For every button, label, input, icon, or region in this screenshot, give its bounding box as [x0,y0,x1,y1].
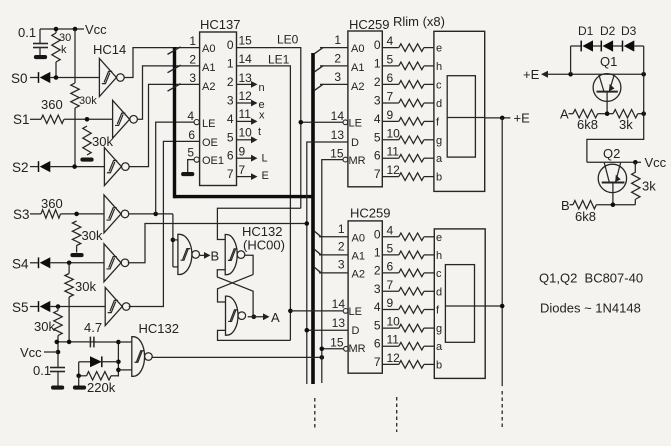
svg-text:10: 10 [387,315,401,329]
continuation dashed stub +E [501,391,503,429]
input S0 label [11,71,28,86]
wire A node [598,111,613,116]
svg-text:g: g [436,323,442,335]
svg-text:+E: +E [523,67,540,82]
resistor 30k pull-up S2 [71,83,97,167]
svg-text:A1: A1 [202,62,215,74]
svg-text:5: 5 [374,130,381,144]
svg-text:A0: A0 [352,233,365,245]
continuation dashed stub mid [396,397,398,432]
wire HC137 output 5 t arrow [237,136,258,143]
diode POR discharge [79,356,119,367]
svg-text:A: A [271,310,280,325]
svg-text:7: 7 [227,167,234,181]
HC132 label latch [242,224,285,253]
HC259 upper left pin labels [330,33,366,167]
bus entry slashes HC259 lower [314,231,321,273]
resistor Rlim lower segment a [382,342,434,350]
resistor 360 on S1 [30,97,64,124]
svg-text:D2: D2 [600,24,616,38]
svg-text:3: 3 [374,94,381,108]
svg-text:B: B [211,249,220,264]
svg-text:9: 9 [387,296,394,310]
wire HC137 out0 LE0 [237,33,301,209]
svg-text:B: B [561,198,570,213]
svg-text:A2: A2 [352,269,365,281]
diode D2 [593,24,616,52]
svg-text:D3: D3 [621,24,637,38]
svg-text:12: 12 [387,163,401,177]
svg-text:h: h [436,61,442,73]
svg-text:h: h [436,250,442,262]
resistor Rlim lower segment g [382,324,434,332]
svg-text:A0: A0 [202,43,215,55]
resistor Rlim upper segment d [382,99,434,107]
resistor 30k pull-up S0 [52,29,71,78]
wire Vcc down to 30k S2 pullup [74,29,76,83]
svg-text:5: 5 [227,130,234,144]
svg-text:0.1: 0.1 [33,363,51,378]
svg-text:5: 5 [387,241,394,255]
svg-text:13: 13 [331,128,345,142]
HC259 lower output digits [374,227,381,369]
svg-text:12: 12 [239,89,253,103]
svg-text:3k: 3k [642,179,656,194]
svg-text:b: b [436,359,442,371]
wire HC137 output 2 n arrow [237,81,258,88]
svg-text:30k: 30k [92,134,113,149]
HC132 label oscillator [139,321,179,336]
ground for S3 30k [70,253,83,257]
resistor Rlim lower segment e [382,233,434,241]
7-segment display block lower [434,229,485,379]
latch cross wire bottom-out to top-in [217,270,253,317]
svg-text:Rlim (x8): Rlim (x8) [393,14,445,29]
svg-text:6: 6 [188,128,195,142]
svg-text:1: 1 [334,33,341,47]
wire +E display lower [485,304,504,309]
svg-text:13: 13 [332,316,346,330]
HC259 lower LE pin wire + bubble [290,309,348,314]
HC259 upper MR pin wire + bubble [322,157,348,383]
HC259 upper D pin wire [307,142,348,384]
HC14 label [93,42,126,57]
resistor 30k pulldown S1 [83,126,114,155]
HC259 lower left pin labels [330,222,366,355]
capacitor C 4.7 [84,320,118,347]
svg-text:c: c [436,79,442,91]
svg-text:1: 1 [374,56,381,70]
svg-text:4: 4 [387,34,394,48]
ground for 0.1 cap [34,55,47,59]
HC259 lower MR pin wire + bubble [320,346,349,351]
svg-text:OE1: OE1 [202,155,224,167]
svg-text:A2: A2 [202,81,215,93]
input A label [560,107,569,122]
svg-text:15: 15 [330,147,344,161]
wires HC259 lower A0-A2 [319,237,348,273]
inverter U1D S3 (HC14 Schmitt) [104,195,129,233]
wire LE riser (pin4 to S3 inverter) [156,122,194,214]
svg-text:12: 12 [387,351,401,365]
svg-text:2: 2 [227,75,234,89]
wire latch bottom input2 jog from LE1 [218,309,293,341]
wire S0 row [50,75,99,80]
inverter U1F S5 (HC14 Schmitt) [105,288,130,326]
resistor Rlim upper segment a [382,154,434,162]
arrow output B [200,249,219,264]
svg-text:HC137: HC137 [200,17,240,32]
svg-text:d: d [436,286,442,298]
svg-text:14: 14 [332,297,346,311]
wires HC259 upper A0-A2 [320,48,348,85]
resistor Rlim upper segment b [382,173,434,181]
inverter U1B S1 (HC14 Schmitt) [113,100,138,138]
wire POR node vertical [116,340,121,377]
wire S2 row [50,164,104,169]
display block upper segment letters [436,43,443,184]
svg-text:7: 7 [387,278,394,292]
svg-text:30k: 30k [75,279,96,294]
svg-text:3: 3 [338,258,345,272]
inverter U1E S4 (HC14 Schmitt) [104,244,129,282]
svg-text:D: D [351,137,359,149]
svg-text:0: 0 [374,227,381,241]
svg-text:L: L [262,153,268,165]
svg-text:4: 4 [374,112,381,126]
wire latch top output [245,255,254,274]
wire S3 row [61,212,105,217]
NAND gate U3D oscillator body [132,337,152,377]
svg-text:A2: A2 [351,81,364,93]
svg-text:14: 14 [239,52,253,66]
svg-text:2: 2 [338,240,345,254]
svg-text:4.7: 4.7 [84,320,102,335]
svg-text:D1: D1 [578,24,594,38]
input S1 label [13,112,30,127]
svg-text:n: n [259,82,265,94]
svg-text:2: 2 [374,263,381,277]
NAND gate U3B latch-top body [225,235,245,275]
svg-text:Q1: Q1 [600,54,617,69]
svg-text:15: 15 [239,34,253,48]
svg-text:A1: A1 [352,251,365,263]
svg-text:15: 15 [330,336,344,350]
svg-text:3k: 3k [619,117,633,132]
svg-text:4: 4 [374,300,381,314]
Vcc label top-left [85,22,107,37]
resistor Rlim upper segment e [382,44,434,52]
wire S5 row [50,304,105,309]
NAND gate U3C latch-bottom body [226,296,246,335]
IC U2 HC137 box [200,17,241,186]
resistor Rlim lower segment h [382,251,434,259]
resistor Rlim lower segment d [382,288,434,296]
wire +E vertical [501,118,503,386]
svg-text:4: 4 [227,112,234,126]
svg-text:S2: S2 [12,160,29,175]
diode at S4 [30,257,50,268]
svg-text:S5: S5 [12,300,29,315]
svg-text:S4: S4 [12,257,29,272]
resistor 6k8 on B [570,201,597,225]
svg-text:D: D [352,325,360,337]
NAND gate U3A (B driver) body [178,234,200,274]
ground for S1 30k [80,158,93,162]
next LE letters [258,82,269,182]
HC259 upper LE pin wire + bubble [299,120,348,125]
diode D1 [571,24,594,52]
node dot Vcc/30k [54,27,78,32]
bus entry slashes HC259 upper [314,47,323,90]
svg-text:3: 3 [189,71,196,85]
wire inv S1 out to pin2 [137,66,199,119]
Vcc rail top-left wire [40,28,84,30]
svg-text:c: c [436,268,442,280]
svg-text:6: 6 [374,149,381,163]
ground for POR [73,376,86,390]
HC259 upper output digits [374,38,381,181]
note diode types [540,301,641,316]
svg-text:f: f [436,116,440,128]
diode D3 [613,24,644,52]
wire Q1 collector to Q2 rail [587,74,644,162]
wire Q2 emitter rail to Vcc [587,160,641,165]
svg-text:5: 5 [387,52,394,66]
svg-text:360: 360 [41,196,63,211]
svg-text:k: k [61,44,67,56]
resistor Rlim lower segment b [382,361,434,369]
wire MR net from oscillator [152,355,324,360]
transistor Q2 [598,146,626,205]
capacitor C 0.1 top-left [18,25,48,55]
wire inv S3 drop to gate B inputs [171,214,178,267]
svg-text:0: 0 [374,38,381,52]
svg-text:MR: MR [349,155,366,167]
svg-text:9: 9 [239,145,246,159]
HC137 left pin labels [187,34,224,167]
resistor 220k [76,362,118,395]
svg-text:11: 11 [387,333,400,347]
svg-text:x: x [259,110,265,122]
input S2 label [12,160,29,175]
HC137 right pin numbers [239,34,253,178]
svg-text:a: a [436,341,443,353]
transistor Q1 [593,54,621,114]
svg-text:LE: LE [349,118,362,130]
IC U4 HC259 upper box [348,17,390,187]
svg-text:2: 2 [189,53,196,67]
svg-text:HC259: HC259 [350,206,390,221]
svg-text:4: 4 [387,223,394,237]
svg-text:1: 1 [338,222,345,236]
svg-text:7: 7 [374,355,381,369]
svg-text:Vcc: Vcc [85,22,107,37]
svg-text:6: 6 [387,259,394,273]
+E arrow upper right [523,67,646,82]
Vcc label bottom-left [20,345,42,360]
svg-text:14: 14 [331,109,345,123]
svg-text:30k: 30k [34,319,55,334]
svg-text:A0: A0 [351,43,364,55]
svg-text:6: 6 [387,71,394,85]
svg-text:LE: LE [202,118,215,130]
svg-text:(HC00): (HC00) [243,238,285,253]
address bus thick L-shape left [175,47,314,384]
svg-text:Q1,Q2 BC807-40: Q1,Q2 BC807-40 [539,271,643,286]
svg-text:e: e [436,232,442,244]
svg-text:13: 13 [239,71,253,85]
svg-text:11: 11 [387,145,400,159]
svg-text:E: E [262,170,269,182]
svg-text:a: a [436,153,443,165]
svg-text:Diodes ~ 1N4148: Diodes ~ 1N4148 [540,301,641,316]
wire inv S4 out riser [128,224,307,263]
HC259 upper output pin numbers [387,34,401,177]
svg-text:b: b [436,172,442,184]
wire HC137 output 3 e arrow [237,100,258,107]
oscillator gate input wires [118,342,131,370]
wire inv S0 out to pin1 [124,48,199,78]
HC259 lower output pin numbers [387,223,401,365]
svg-text:d: d [436,98,442,110]
svg-text:A: A [560,107,569,122]
resistor 360 on S3 [30,196,63,218]
resistor Rlim upper segment h [382,62,434,70]
capacitor C 0.1 bottom-left [33,363,65,386]
resistor 6k8 on A [569,110,598,133]
bus entry slashes HC137 [168,47,181,91]
svg-text:3: 3 [334,70,341,84]
svg-text:7: 7 [387,90,394,104]
svg-text:4: 4 [187,109,194,123]
svg-text:2: 2 [374,75,381,89]
continuation dashed stub bus [314,398,316,430]
HC137 pin5 OE1 bubble + ground [181,157,199,176]
svg-text:1: 1 [374,245,381,259]
svg-text:220k: 220k [87,380,116,395]
note transistor types [539,271,643,286]
resistor Rlim upper segment g [382,136,434,144]
7-segment display block upper [434,31,485,191]
input S5 label [12,300,29,315]
resistor Rlim upper segment c [382,81,434,89]
svg-text:360: 360 [41,97,63,112]
svg-text:t: t [258,126,261,138]
svg-text:7: 7 [239,163,246,177]
svg-text:10: 10 [387,126,401,140]
input B label [561,198,570,213]
wire HC137 output 6 L arrow [237,155,258,162]
wire B node [596,202,635,207]
svg-text:10: 10 [239,126,253,140]
svg-text:LE: LE [349,306,362,318]
resistor Rlim lower segment c [382,269,434,277]
svg-text:Q2: Q2 [603,146,620,161]
svg-text:11: 11 [239,107,252,121]
svg-text:1: 1 [227,56,234,70]
svg-text:S3: S3 [13,207,30,222]
wire inv S3 out [129,212,173,217]
svg-text:LE1: LE1 [268,53,290,67]
wire latch bottom output + arrow A [248,310,280,325]
diode at S2 [30,161,50,172]
svg-text:e: e [436,43,442,55]
svg-text:HC132: HC132 [139,321,179,336]
svg-text:S0: S0 [11,71,28,86]
wire diode string ends [571,46,644,74]
wire HC137 out1 LE1 [237,53,291,341]
svg-text:MR: MR [349,343,366,355]
svg-text:30: 30 [59,32,71,44]
svg-text:OE: OE [202,137,218,149]
resistor Rlim lower segment f [382,306,434,314]
svg-text:6: 6 [374,337,381,351]
svg-text:5: 5 [187,146,194,160]
wire LE0 to latch top input [217,208,300,239]
display block lower segment letters [436,232,443,372]
resistor 30k pull-up S5 [34,307,62,342]
wire HC137 output 4 x arrow [237,118,258,125]
svg-text:3: 3 [374,282,381,296]
wire S4 row [50,261,104,266]
inverter U1C S2 (HC14 Schmitt) [104,148,129,186]
input S3 label [13,207,30,222]
svg-text:6k8: 6k8 [577,117,598,132]
svg-text:LE0: LE0 [277,33,299,47]
svg-text:g: g [436,135,442,147]
Vcc label right [645,155,667,170]
svg-text:1: 1 [189,34,196,48]
svg-text:f: f [436,305,440,317]
svg-text:A1: A1 [351,62,364,74]
wire HC137 output 7 E arrow [237,173,258,180]
resistor 30k pulldown S3 [72,221,103,253]
HC137 right outputs digits [227,38,234,181]
svg-text:30k: 30k [79,95,97,107]
svg-text:5: 5 [374,319,381,333]
svg-text:+E: +E [514,111,531,126]
svg-text:7: 7 [374,167,381,181]
resistor Rlim upper segment f [382,118,434,126]
svg-text:HC14: HC14 [93,42,126,57]
svg-text:6k8: 6k8 [575,209,596,224]
resistor 3k on Q2 [632,162,657,204]
wire inv S2 out to pin3 [128,84,199,166]
svg-text:9: 9 [387,108,394,122]
svg-text:HC259: HC259 [349,17,389,32]
svg-text:3: 3 [227,94,234,108]
input S4 label [12,257,29,272]
svg-text:Vcc: Vcc [645,155,667,170]
+E label mid [514,111,531,126]
svg-text:6: 6 [227,149,234,163]
ground for bottom 0.1 cap [51,386,64,390]
Vcc node bottom-left wires [44,340,96,368]
svg-text:S1: S1 [13,112,30,127]
HC259 lower D pin wire [305,221,349,332]
IC U5 HC259 lower box [348,206,390,374]
Rlim (x8) label [393,14,445,29]
HC137 pin4 LE bubble [194,120,199,125]
diode at S5 [30,301,50,312]
inverter U1A S0 (HC14 Schmitt) [99,59,124,97]
svg-text:2: 2 [334,52,341,66]
latch cross wire top-out to bottom-in [218,275,254,302]
wire inv S5 out riser to OE [129,141,200,306]
svg-text:0: 0 [227,38,234,52]
diode at S0 [30,72,50,83]
